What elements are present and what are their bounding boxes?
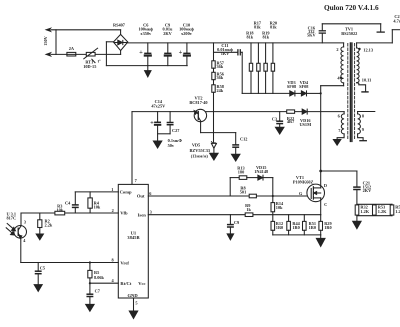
svg-text:C5: C5 <box>40 265 45 270</box>
svg-text:81k: 81k <box>262 35 269 40</box>
svg-text:1.2K: 1.2K <box>395 209 400 214</box>
svg-text:4R7: 4R7 <box>287 119 295 124</box>
svg-text:1N4148: 1N4148 <box>254 169 268 174</box>
svg-text:5KV: 5KV <box>307 32 316 37</box>
svg-text:Vcc: Vcc <box>138 281 145 286</box>
svg-text:3845B: 3845B <box>127 235 139 240</box>
svg-text:24k: 24k <box>217 88 224 93</box>
svg-text:1R0: 1R0 <box>276 225 283 230</box>
svg-text:3: 3 <box>24 219 26 224</box>
svg-text:RS407: RS407 <box>113 23 126 28</box>
svg-text:x350v: x350v <box>140 31 152 36</box>
svg-text:SF08: SF08 <box>287 84 296 89</box>
svg-text:VD5: VD5 <box>192 142 200 147</box>
svg-text:Qulon 720 V.4.1.6: Qulon 720 V.4.1.6 <box>324 3 379 12</box>
svg-text:150V: 150V <box>43 35 48 45</box>
svg-text:US1M: US1M <box>299 122 311 127</box>
svg-text:9: 9 <box>362 127 364 132</box>
svg-text:C7: C7 <box>95 288 101 293</box>
svg-text:+: + <box>139 49 143 56</box>
svg-text:501: 501 <box>240 189 246 194</box>
svg-text:36k: 36k <box>217 64 224 69</box>
svg-text:2.2k: 2.2k <box>45 222 53 227</box>
svg-text:1k: 1k <box>246 207 251 212</box>
svg-text:BS25022: BS25022 <box>341 31 357 36</box>
svg-text:Out: Out <box>137 194 145 199</box>
svg-text:180: 180 <box>238 169 244 174</box>
svg-text:D: D <box>324 183 327 188</box>
svg-text:8: 8 <box>111 257 113 262</box>
svg-text:GND: GND <box>127 293 138 298</box>
svg-text:+: + <box>150 119 154 126</box>
svg-text:SF08: SF08 <box>299 84 308 89</box>
svg-text:1R0: 1R0 <box>324 225 331 230</box>
svg-text:2A: 2A <box>69 46 75 51</box>
svg-text:2: 2 <box>336 47 338 52</box>
svg-text:10k: 10k <box>276 205 283 210</box>
svg-text:C27: C27 <box>172 128 180 133</box>
svg-text:47x25V: 47x25V <box>151 104 166 109</box>
svg-text:BZV55C33: BZV55C33 <box>190 148 211 153</box>
svg-text:P10NK60Z: P10NK60Z <box>293 180 314 185</box>
svg-text:C9: C9 <box>234 220 239 225</box>
svg-text:+: + <box>179 49 183 56</box>
svg-text:817C: 817C <box>7 216 17 221</box>
svg-text:1R0: 1R0 <box>309 225 316 230</box>
svg-text:10k: 10k <box>56 207 63 212</box>
svg-text:1.2K: 1.2K <box>360 209 369 214</box>
svg-text:(13мм/м): (13мм/м) <box>191 154 209 159</box>
svg-text:2KV: 2KV <box>163 31 172 36</box>
svg-text:t°: t° <box>98 59 101 64</box>
svg-text:Vref: Vref <box>120 260 129 265</box>
svg-text:36k: 36k <box>217 75 224 80</box>
svg-text:1KV: 1KV <box>221 51 230 56</box>
svg-text:81k: 81k <box>254 25 261 30</box>
svg-text:3: 3 <box>150 210 152 215</box>
svg-text:50v: 50v <box>168 143 175 148</box>
svg-text:8.06k: 8.06k <box>94 275 105 280</box>
svg-text:8: 8 <box>362 114 364 119</box>
svg-text:81k: 81k <box>270 25 277 30</box>
svg-text:10D-15: 10D-15 <box>83 64 96 69</box>
svg-text:4.7n: 4.7n <box>393 18 400 23</box>
svg-text:10.11: 10.11 <box>362 77 371 82</box>
svg-text:10k: 10k <box>94 205 101 210</box>
svg-text:2: 2 <box>112 208 114 213</box>
svg-text:Rt/Ct: Rt/Ct <box>120 281 131 286</box>
svg-text:C4: C4 <box>65 201 71 206</box>
svg-text:Isen: Isen <box>138 212 147 217</box>
svg-text:1: 1 <box>111 187 113 192</box>
svg-text:2KV: 2KV <box>363 188 372 193</box>
svg-text:Vfb: Vfb <box>120 211 128 216</box>
svg-text:5: 5 <box>135 301 137 306</box>
svg-text:BC817-40: BC817-40 <box>189 100 207 105</box>
svg-text:x200v: x200v <box>181 31 193 36</box>
svg-text:C12: C12 <box>240 137 247 142</box>
svg-text:1.2K: 1.2K <box>378 209 387 214</box>
svg-text:C3: C3 <box>272 116 277 121</box>
svg-text:12.13: 12.13 <box>363 48 373 53</box>
svg-text:81k: 81k <box>246 35 253 40</box>
svg-text:Comp: Comp <box>120 190 132 195</box>
svg-text:C: C <box>324 202 327 207</box>
svg-text:1R0: 1R0 <box>292 225 299 230</box>
